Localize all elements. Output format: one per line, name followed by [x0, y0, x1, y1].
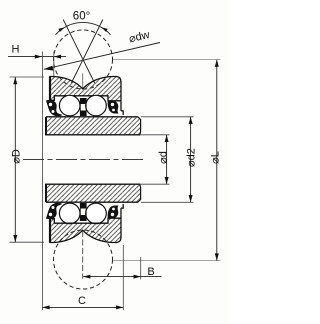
inner ring top half hatch — [46, 117, 141, 135]
C arrowhead left — [42, 305, 49, 309]
B arrowhead right — [134, 275, 141, 279]
dimension D extension top — [10, 76, 45, 78]
seal top-left — [46, 100, 63, 116]
inner ring bottom face line — [46, 201, 138, 203]
seal bottom-right — [108, 206, 119, 219]
L arrowhead top — [215, 60, 219, 67]
groove center line bottom — [82, 231, 84, 279]
leader dw arrowhead — [44, 66, 54, 71]
ball top-right — [86, 95, 107, 116]
inner ring bottom outline — [46, 184, 141, 202]
dimension d line — [166, 135, 168, 184]
groove center line top — [82, 74, 84, 89]
outer ring top band hatch — [50, 77, 121, 101]
svg-text:60°: 60° — [73, 11, 90, 23]
ball bottom-left — [59, 203, 80, 224]
60° arc arrowhead left — [58, 28, 64, 32]
H extension line right — [53, 52, 55, 76]
dimension d2 extension lines — [141, 116, 194, 118]
seal top-right — [108, 101, 119, 114]
inner ring left face thick (bottom half) — [45, 184, 47, 202]
dimension L line — [216, 60, 218, 261]
d arrowhead top — [165, 135, 169, 142]
svg-text:⌀L: ⌀L — [210, 151, 222, 164]
outer ring top outline — [50, 77, 123, 115]
seal bottom-left — [46, 203, 63, 219]
inner ring bottom half hatch — [46, 184, 141, 202]
dimension L extension bottom — [113, 260, 221, 262]
dimension L extension top — [113, 59, 221, 61]
svg-text:⌀D: ⌀D — [11, 149, 23, 164]
L arrowhead bottom — [215, 253, 219, 260]
cage center bar bottom — [80, 215, 86, 221]
svg-text:C: C — [78, 295, 86, 307]
60° arc arrowhead right — [102, 28, 108, 32]
H right arrowhead — [54, 55, 61, 59]
d arrowhead bottom — [165, 177, 169, 184]
cage center bar top — [80, 98, 86, 104]
inner ring left face thick (top half) — [45, 117, 47, 135]
D arrowhead bottom — [13, 235, 17, 242]
leader dw — [44, 43, 160, 70]
D arrowhead top — [13, 77, 17, 84]
outer ring left face thick — [49, 77, 51, 101]
C arrowhead right — [116, 305, 123, 309]
60° dimension arc — [56, 22, 111, 34]
d2 arrowhead top — [189, 117, 193, 124]
H extension line left (full height) — [41, 52, 43, 311]
inner ring top face line — [46, 116, 138, 118]
ball top-left — [59, 95, 80, 116]
outer ring bottom outline — [50, 204, 123, 242]
svg-text:⌀d2: ⌀d2 — [186, 148, 198, 167]
dimension B extension right — [140, 257, 142, 280]
dimension d2 line — [190, 117, 192, 203]
svg-text:B: B — [147, 266, 154, 278]
svg-text:H: H — [12, 44, 20, 56]
dimension B line — [83, 276, 161, 278]
outer ring bottom band hatch — [50, 218, 121, 242]
bore top line — [45, 134, 141, 136]
contact line right (60° cone) — [71, 20, 102, 84]
svg-text:⌀dw: ⌀dw — [128, 29, 151, 45]
outer ring left face thick (bottom) — [49, 218, 51, 242]
dimension C line — [42, 306, 123, 308]
contact line left (60° cone) — [63, 20, 94, 84]
H left arrowhead — [35, 55, 42, 59]
dimension D line — [14, 77, 16, 242]
d2 arrowhead bottom — [189, 195, 193, 202]
svg-text:⌀d: ⌀d — [158, 151, 170, 164]
bore bottom line — [45, 183, 141, 185]
centerline axis — [23, 159, 146, 161]
dimension d extension lines — [141, 134, 170, 136]
dimension C extension right — [122, 245, 124, 310]
dimension D extension bottom — [10, 241, 45, 243]
B arrowhead left — [83, 275, 90, 279]
ball bottom-right — [86, 203, 107, 224]
H dimension line — [8, 56, 66, 58]
inner ring top outline — [46, 117, 141, 135]
wire circle dw (bottom, dashed phantom) — [54, 230, 113, 289]
wire circle dw (top, dashed phantom) — [54, 30, 113, 89]
